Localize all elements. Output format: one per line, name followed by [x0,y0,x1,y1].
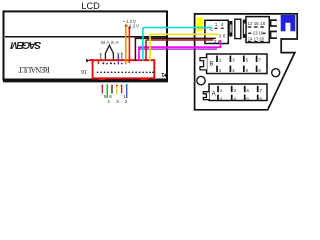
svg-text:A: A [212,91,216,97]
lower pin dot row [97,71,154,73]
upper pin tick blue [117,62,119,65]
svg-text:MASA: MASA [101,40,119,46]
yellow highlight connector slot [196,17,202,31]
svg-text:3: 3 [233,88,236,93]
mini-ISO connector 1 box [205,20,228,43]
upper pin tick orange [125,62,127,65]
pin1 arrow marker [86,59,89,63]
wire magenta horizontal (thick) [139,46,221,48]
svg-text:5: 5 [246,58,249,63]
svg-text:B: B [209,61,213,67]
RENAULT label (rotated 180) [18,65,50,74]
svg-text:8: 8 [223,34,226,39]
block B pins 1 3 5 7 [217,56,257,62]
wire cyan horizontal [143,27,212,29]
wire yellow horizontal [150,33,218,35]
upper pin row ticks [102,62,122,64]
mounting hole right [272,69,280,77]
svg-text:20: 20 [259,36,264,41]
svg-text:2: 2 [219,68,222,73]
block A pins 2 4 6 8 [218,95,258,101]
svg-text:8: 8 [259,97,262,102]
wire black horizontal [135,37,216,39]
wire cyan vertical [142,28,144,61]
svg-text:6: 6 [246,97,249,102]
svg-text:3: 3 [116,99,119,104]
svg-text:3: 3 [232,58,235,63]
ISO block A outline [209,84,267,101]
mini-ISO 2 right tab upper [270,19,277,27]
wire dark-red vertical [145,40,147,61]
svg-text:17: 17 [254,36,259,41]
svg-text:5: 5 [246,88,249,93]
svg-text:2: 2 [220,97,223,102]
mini-ISO 1 side tab [229,21,232,37]
blue connector [281,15,296,31]
svg-text:7: 7 [259,88,262,93]
svg-text:12: 12 [248,21,253,26]
SAGEM label (rotated 180) [10,39,41,50]
pin tick red inside [97,61,99,64]
mini-ISO 2 slots row1 [248,26,252,27]
svg-text:3: 3 [219,34,222,39]
pin label 1 (rotated 180) [161,71,164,77]
pin label 16 (rotated 180) [81,68,87,74]
stub gray2 with dot [121,55,123,60]
pigtail wire 2 blue [126,84,128,98]
svg-text:+12V: +12V [126,23,140,29]
wire magenta riser into connector [220,40,222,48]
svg-text:6: 6 [246,68,249,73]
svg-text:RENAULT: RENAULT [18,65,50,74]
mounting hole left [197,76,205,84]
block A pins 1 3 5 7 [218,86,258,92]
pigtail wire 3 yellow [116,85,118,87]
wire yellow vertical [149,34,151,61]
svg-text:7: 7 [258,58,261,63]
ISO block B outline [207,54,267,74]
svg-text:18: 18 [260,21,265,26]
block A left tab [203,92,209,100]
svg-text:SAGEM: SAGEM [10,39,41,50]
MASA ground wires [105,45,113,59]
pigtail wire 4 green [106,84,108,98]
wire orange +12V [125,25,127,64]
LCD box thick bottom edge [3,80,168,83]
svg-text:4: 4 [107,99,110,104]
wire purple horizontal [139,48,217,50]
svg-text:4: 4 [232,68,235,73]
mini-ISO 2 right tab lower [270,31,277,39]
mini-ISO 2 row2 slots [248,33,251,34]
connector top edge left extension [89,59,93,61]
svg-text:8: 8 [258,68,261,73]
block B pins 2 4 6 8 [217,66,257,72]
svg-text:16: 16 [81,68,87,74]
pigtail wire 1 red [121,85,123,87]
svg-text:14: 14 [248,36,253,41]
mini-ISO 2 left tab [243,20,247,38]
pigtail wire 6 black [111,85,113,87]
mini-ISO 2 slots bottom [248,41,251,42]
svg-text:1: 1 [215,22,218,27]
svg-text:1: 1 [219,58,222,63]
connector foot right [140,78,148,80]
interior divider line [5,36,166,38]
wire red +12V [128,29,130,63]
mini-ISO 1 slots row1 [215,28,218,29]
wire dark-red horizontal [146,39,213,41]
stub gray with dot [100,55,102,60]
LCD connector J1 (red) [93,60,155,78]
svg-text:2: 2 [125,99,128,104]
wire magenta vertical [138,47,140,61]
pin1 side tick [164,73,167,77]
stub blue with dot [117,55,119,60]
svg-text:LCD: LCD [81,1,100,11]
radio unit outline [195,14,298,110]
svg-text:1: 1 [161,71,164,77]
wire black vertical [134,38,136,60]
svg-text:2: 2 [214,39,217,44]
svg-text:4: 4 [233,97,236,102]
mini-ISO connector 2 box [246,17,269,43]
svg-text:13: 13 [253,31,258,36]
svg-text:15: 15 [254,21,259,26]
LCD unit box [4,11,168,79]
divider bars [235,19,241,38]
connector foot left [99,78,105,80]
svg-text:1: 1 [220,88,223,93]
svg-text:4: 4 [221,22,224,27]
pigtail wire 5 red [101,85,103,87]
block B left tab [200,58,207,70]
